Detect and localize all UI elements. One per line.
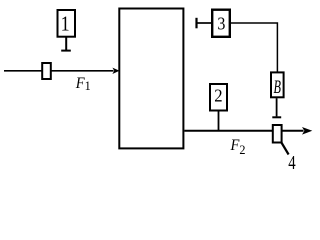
leader line to label 4	[281, 142, 289, 155]
sensor tap bar for box 3	[195, 18, 197, 29]
control valve 4 on F2 line	[273, 125, 282, 143]
lead from tap to box 3	[197, 22, 212, 24]
input arrowhead	[112, 68, 119, 74]
probe tip tick of box 1	[61, 50, 71, 52]
control valve on F1 line	[42, 63, 51, 79]
instrument box 3	[212, 10, 230, 37]
instrument box 2	[210, 84, 227, 111]
stem below box B	[276, 98, 278, 116]
output flow line F2	[184, 130, 303, 132]
svg-text:B: B	[273, 78, 281, 98]
probe stem of box 1	[65, 37, 67, 50]
instrument box 1	[58, 10, 76, 37]
svg-text:F1: F1	[75, 75, 91, 93]
controller box B	[271, 72, 284, 97]
svg-text:2: 2	[214, 85, 222, 106]
wire box 3 to controller B	[231, 23, 278, 72]
svg-text:4: 4	[288, 151, 296, 172]
output arrowhead	[302, 127, 312, 135]
vessel (main process unit)	[119, 9, 183, 149]
svg-text:3: 3	[217, 14, 225, 34]
tick below box B	[272, 116, 281, 118]
input flow line F1	[4, 70, 114, 72]
svg-text:1: 1	[61, 13, 70, 35]
stem from box 2 to flow line	[218, 111, 220, 130]
